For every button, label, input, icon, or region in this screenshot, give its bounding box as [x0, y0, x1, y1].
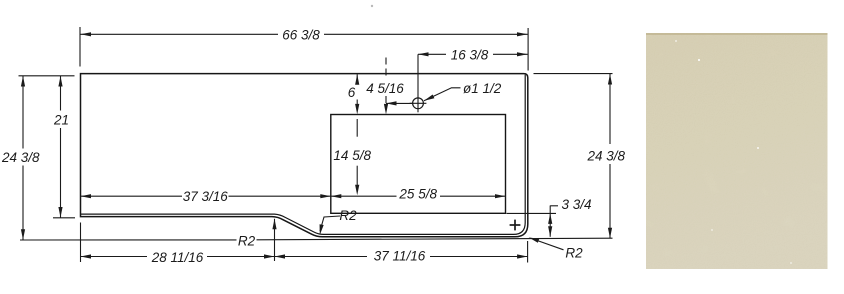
dimension 24 3/8 right — [534, 74, 613, 239]
svg-text:25 5/8: 25 5/8 — [398, 187, 437, 202]
svg-text:R2: R2 — [339, 208, 357, 223]
dimension 21 left — [53, 76, 75, 218]
stray scan dot — [371, 5, 373, 7]
dimension 37 11/16 — [275, 241, 528, 263]
dimension 6 — [356, 74, 358, 107]
svg-text:16 3/8: 16 3/8 — [451, 47, 489, 62]
svg-text:28 11/16: 28 11/16 — [151, 250, 204, 265]
svg-text:14 5/8: 14 5/8 — [333, 148, 371, 163]
leader R2 step bottom corner — [320, 216, 340, 231]
svg-text:6: 6 — [348, 85, 356, 100]
svg-text:R2: R2 — [238, 234, 256, 249]
leader diameter 1 1/2 — [424, 88, 461, 101]
dimension 25 5/8 — [331, 195, 506, 197]
svg-text:24 3/8: 24 3/8 — [1, 150, 40, 165]
svg-text:ø1 1/2: ø1 1/2 — [463, 81, 502, 96]
sink cutout rectangle — [331, 115, 506, 214]
svg-text:21: 21 — [53, 113, 69, 128]
countertop outer outline — [81, 74, 528, 237]
svg-text:37 11/16: 37 11/16 — [374, 248, 426, 263]
material color swatch — [646, 33, 828, 269]
dimension 3 3/4 — [507, 206, 559, 237]
svg-text:66 3/8: 66 3/8 — [282, 27, 320, 42]
dimension 37 3/16 — [81, 195, 331, 197]
leader R2 bottom right corner — [533, 239, 564, 250]
dimension 66 3/8 top — [80, 27, 528, 71]
svg-text:R2: R2 — [565, 245, 583, 260]
svg-text:24 3/8: 24 3/8 — [587, 149, 626, 164]
countertop inner edge offset line — [81, 75, 525, 235]
faucet hole circle — [413, 98, 424, 109]
svg-text:4 5/16: 4 5/16 — [366, 81, 404, 96]
faucet hole center cross — [410, 102, 427, 104]
corner radius center mark + — [510, 220, 521, 231]
dimension 16 3/8 — [418, 54, 528, 112]
dimension 4 5/16 — [386, 58, 412, 111]
dimension 24 3/8 left — [19, 76, 613, 240]
dimension 28 11/16 — [81, 223, 275, 263]
dimension 14 5/8 — [356, 119, 358, 189]
svg-text:3 3/4: 3 3/4 — [562, 197, 592, 212]
leader R2 middle step top corner — [274, 219, 276, 261]
svg-text:37 3/16: 37 3/16 — [183, 189, 229, 204]
